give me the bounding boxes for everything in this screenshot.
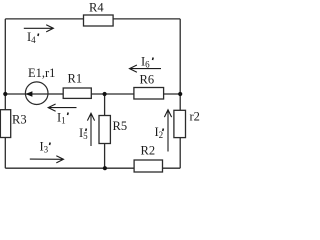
svg-text:R6: R6 [140, 73, 155, 87]
wire bottom-right segment [163, 167, 181, 169]
svg-text:I5: I5 [79, 126, 88, 141]
node junction right [178, 92, 182, 96]
resistor R3 [0, 110, 10, 138]
svg-text:R3: R3 [12, 112, 27, 126]
svg-text:R1: R1 [68, 72, 83, 86]
current arrow I2 [164, 110, 171, 152]
node junction bottom [103, 166, 107, 170]
svg-text:E1,r1: E1,r1 [28, 66, 55, 80]
current arrow I3 [30, 156, 64, 163]
resistor r2 [174, 110, 186, 137]
node junction center [103, 92, 107, 96]
current arrow I4 [24, 25, 54, 32]
wire R5 to bottom segment [104, 144, 106, 169]
current arrow I5 [87, 113, 94, 146]
svg-text:I1: I1 [57, 111, 66, 126]
wire bottom-left segment [5, 167, 134, 169]
svg-text:I3: I3 [40, 140, 49, 155]
wire E1 to R1 segment [48, 93, 63, 95]
wire right lower segment [179, 138, 181, 169]
resistor R5 [99, 116, 110, 144]
node junction left [3, 92, 7, 96]
resistor R1 [63, 88, 91, 98]
wire middle left segment [5, 93, 25, 95]
svg-text:I2: I2 [155, 125, 164, 140]
current arrow I1 [48, 104, 76, 111]
source E1 emf arrowhead [25, 91, 32, 97]
svg-text:R2: R2 [141, 144, 156, 158]
wire left upper segment [4, 19, 6, 110]
svg-text:I6: I6 [141, 55, 150, 70]
svg-text:R4: R4 [89, 1, 104, 15]
wire node to R5 segment [104, 94, 106, 116]
wire right upper segment [179, 19, 181, 94]
resistor R4 [84, 15, 114, 26]
source E1 wire through [25, 93, 48, 95]
wire left lower segment [4, 138, 6, 169]
wire R1 to node segment [91, 93, 134, 95]
svg-text:r2: r2 [190, 110, 200, 124]
svg-text:R5: R5 [113, 119, 128, 133]
current arrow I6 [130, 65, 162, 72]
wire right middle segment [179, 94, 181, 110]
resistor R6 [134, 88, 164, 100]
wire top-right segment [113, 18, 180, 20]
wire R6 to right node segment [164, 93, 181, 95]
resistor R2 [134, 160, 162, 172]
wire top-left segment [5, 18, 83, 20]
svg-text:I4: I4 [27, 30, 36, 45]
source E1 circle [25, 82, 48, 105]
